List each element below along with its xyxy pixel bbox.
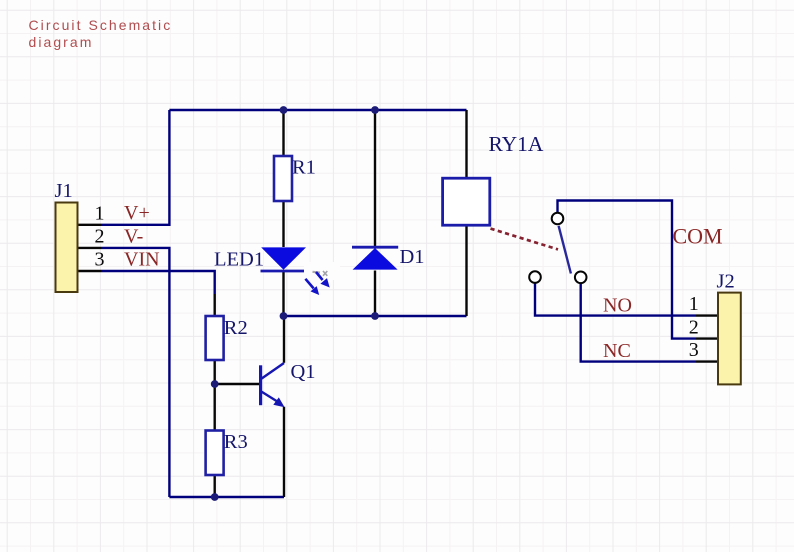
switch blade: [559, 226, 571, 274]
svg-text:RY1A: RY1A: [489, 132, 544, 156]
svg-text:R2: R2: [224, 317, 248, 339]
wire V- from J1 pin2 down left side: [101, 248, 169, 497]
R2 pin top: [213, 294, 215, 316]
wire NO from switch to J2 pin1: [535, 283, 696, 316]
svg-text:R3: R3: [224, 431, 248, 453]
svg-text:NC: NC: [603, 340, 631, 362]
relay actuation dashed link: [491, 229, 559, 250]
wire top rail: [169, 109, 466, 111]
D1 cathode pin: [374, 110, 376, 247]
diode D1: [352, 246, 425, 270]
LED LED1: [214, 247, 307, 271]
switch NC terminal: [575, 272, 587, 284]
LED1 light arrows and smudge: [304, 262, 340, 295]
svg-text:1: 1: [95, 202, 105, 224]
Q1 collector pin: [283, 316, 285, 363]
LED1 cathode pin: [282, 272, 284, 317]
J2 pin stubs: [696, 316, 718, 362]
switch common terminal: [552, 213, 564, 225]
svg-text:R1: R1: [292, 157, 316, 179]
R3 pin bottom: [213, 475, 215, 497]
wire R2-R3 link: [213, 384, 215, 431]
svg-text:Q1: Q1: [291, 361, 316, 383]
svg-text:2: 2: [689, 316, 699, 338]
Q1 emitter pin: [283, 407, 285, 497]
junction node at D1 top: [371, 106, 379, 114]
svg-text:3: 3: [95, 249, 105, 271]
wire VIN from J1 pin3 to R2: [101, 271, 215, 294]
transistor Q1: [261, 361, 316, 407]
resistor R1: [274, 156, 316, 201]
svg-text:NO: NO: [603, 294, 632, 316]
svg-text:V-: V-: [124, 226, 143, 248]
junction node at R2/R3/base: [211, 380, 219, 388]
R1 pin bottom / LED1 anode: [282, 201, 284, 247]
wire V+ from J1 pin1 to top rail: [101, 110, 169, 225]
R2 pin bottom: [213, 360, 215, 384]
relay coil pin top: [465, 110, 467, 178]
switch NO terminal: [529, 271, 541, 283]
svg-text:D1: D1: [400, 246, 425, 268]
connector J1: [55, 180, 78, 292]
svg-text:diagram: diagram: [29, 34, 94, 50]
svg-text:1: 1: [689, 293, 699, 315]
J1 pin stubs: [78, 225, 101, 271]
title: [29, 17, 173, 50]
wire Q1 base: [215, 383, 260, 385]
svg-text:V+: V+: [124, 202, 150, 224]
D1 anode pin: [374, 271, 376, 317]
svg-text:J1: J1: [55, 180, 73, 202]
resistor R2: [206, 316, 248, 360]
svg-text:VIN: VIN: [124, 249, 160, 271]
relay coil RY1A: [443, 132, 544, 225]
wire bottom rail: [169, 496, 284, 498]
svg-text:LED1: LED1: [214, 249, 264, 271]
wire COM from switch to J2 pin2: [558, 201, 697, 339]
wire middle rail: [284, 315, 467, 317]
svg-text:COM: COM: [673, 223, 723, 248]
connector J2: [717, 270, 741, 384]
junction node at LED1 cathode: [280, 312, 288, 320]
svg-text:2: 2: [95, 226, 105, 248]
resistor R3: [206, 431, 248, 476]
R1 pin top: [282, 110, 284, 156]
svg-text:J2: J2: [717, 270, 735, 292]
wire NC from switch to J2 pin3: [581, 283, 696, 361]
relay coil pin bottom: [465, 225, 467, 316]
svg-text:Circuit Schematic: Circuit Schematic: [29, 17, 173, 33]
svg-text:3: 3: [689, 339, 699, 361]
junction node at R1 top: [280, 106, 288, 114]
junction node at R3 bottom rail: [211, 493, 219, 501]
junction node at D1 anode: [371, 312, 379, 320]
